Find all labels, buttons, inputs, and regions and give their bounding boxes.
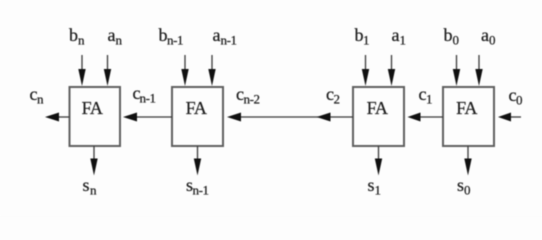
sum output arrow s_1 [375, 146, 382, 176]
input arrow a_n-1 [208, 55, 215, 86]
input arrow b_n-1 [181, 55, 188, 86]
svg-text:0: 0 [453, 33, 460, 48]
svg-text:n: n [37, 92, 44, 107]
svg-text:a: a [392, 25, 400, 45]
sum output arrow s_0 [464, 146, 471, 176]
label b_n-1 [159, 25, 184, 48]
svg-text:FA: FA [456, 98, 477, 118]
label c_n [30, 84, 45, 107]
label s_n [83, 175, 98, 198]
svg-text:n-1: n-1 [193, 183, 209, 198]
label b_0 [444, 25, 460, 48]
full-adder box FA (bit n) [70, 87, 121, 146]
label a_0 [481, 25, 496, 48]
label c_2 [326, 84, 340, 107]
label s_0 [457, 175, 471, 198]
input arrow a_0 [475, 55, 482, 86]
carry-in arrow c_0 [498, 113, 521, 122]
svg-text:s: s [368, 175, 375, 195]
carry arrow c_1 (FA 0 to FA 1) [408, 113, 444, 122]
svg-text:0: 0 [489, 33, 496, 48]
label s_1 [368, 175, 382, 198]
svg-text:n-1: n-1 [221, 33, 237, 48]
svg-text:b: b [69, 25, 78, 45]
svg-text:1: 1 [375, 183, 382, 198]
svg-text:1: 1 [400, 33, 407, 48]
svg-text:n: n [90, 183, 97, 198]
svg-text:n-1: n-1 [140, 91, 156, 106]
svg-text:0: 0 [516, 93, 523, 108]
svg-text:s: s [457, 175, 464, 195]
svg-text:FA: FA [186, 98, 207, 118]
svg-text:b: b [444, 25, 453, 45]
svg-text:n: n [78, 33, 85, 48]
label c_1 [419, 84, 433, 107]
label a_n-1 [213, 25, 237, 48]
input arrow b_1 [362, 55, 369, 86]
svg-text:s: s [83, 175, 90, 195]
label b_n [69, 25, 85, 48]
carry chain line (FA 1 to FA n-1, abridged) [227, 113, 353, 122]
label c_n-2 [236, 84, 260, 107]
sum output arrow s_n-1 [194, 146, 201, 176]
svg-text:a: a [481, 25, 489, 45]
label c_0 [509, 85, 523, 108]
input arrow a_n [104, 55, 111, 86]
label c_n-1 [133, 83, 156, 106]
full-adder box FA (bit 1) [353, 87, 404, 146]
input arrow b_n [78, 55, 85, 86]
svg-text:a: a [213, 25, 221, 45]
svg-text:n: n [116, 33, 123, 48]
label b_1 [355, 25, 370, 48]
input arrow a_1 [388, 55, 395, 86]
input arrow b_0 [453, 55, 460, 86]
svg-text:2: 2 [334, 92, 341, 107]
sum output arrow s_n [90, 146, 97, 176]
svg-text:n-1: n-1 [167, 33, 183, 48]
carry arrow c_n-1 (FA n-1 to FA n) [123, 113, 172, 122]
svg-text:0: 0 [464, 183, 471, 198]
label s_n-1 [186, 175, 209, 198]
label a_n [108, 25, 123, 48]
svg-text:1: 1 [426, 92, 433, 107]
svg-text:a: a [108, 25, 116, 45]
full-adder box FA (bit n-1) [172, 87, 223, 146]
carry-out arrow c_n [45, 113, 70, 122]
svg-text:FA: FA [367, 98, 388, 118]
svg-text:FA: FA [82, 98, 103, 118]
label a_1 [392, 25, 407, 48]
svg-text:1: 1 [363, 33, 370, 48]
svg-text:n-2: n-2 [244, 92, 260, 107]
full-adder box FA (bit 0) [443, 87, 494, 146]
